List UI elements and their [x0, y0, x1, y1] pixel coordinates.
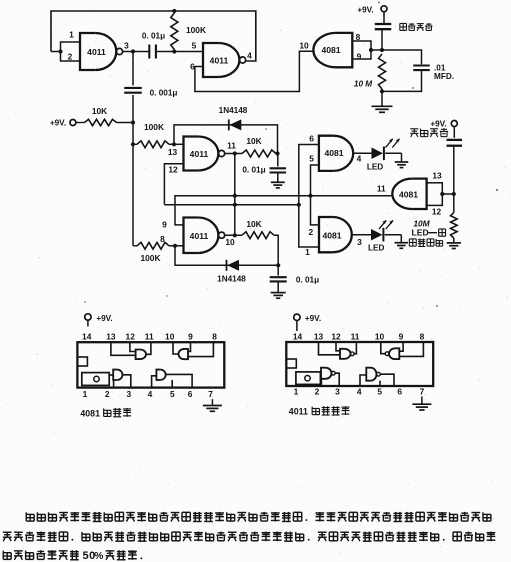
svg-text:4011: 4011	[87, 47, 106, 57]
svg-text:9: 9	[162, 220, 167, 230]
svg-text:11: 11	[377, 184, 386, 194]
svg-text:5: 5	[83, 550, 89, 562]
svg-text:LED: LED	[367, 162, 383, 171]
svg-text:4081: 4081	[324, 148, 343, 158]
svg-text:4011: 4011	[190, 231, 209, 241]
svg-text:LED: LED	[412, 228, 429, 238]
svg-text:10K: 10K	[246, 136, 261, 146]
svg-text:9: 9	[188, 332, 193, 342]
svg-text:10: 10	[165, 332, 175, 342]
svg-text:10: 10	[375, 331, 385, 341]
svg-text:8: 8	[160, 234, 165, 244]
svg-text:4: 4	[148, 389, 153, 399]
svg-text:13: 13	[314, 331, 324, 341]
svg-text:1: 1	[83, 389, 88, 399]
svg-text:6: 6	[188, 389, 193, 399]
svg-text:2: 2	[68, 52, 73, 62]
svg-text:1: 1	[305, 247, 310, 257]
svg-text:8: 8	[212, 332, 217, 342]
svg-text:12: 12	[331, 331, 341, 341]
svg-text:2: 2	[105, 389, 110, 399]
svg-text:5: 5	[377, 387, 382, 397]
svg-text:9: 9	[357, 51, 362, 61]
svg-text:12: 12	[432, 206, 442, 216]
svg-text:6: 6	[397, 387, 402, 397]
svg-text:13: 13	[432, 170, 442, 180]
svg-text:7: 7	[208, 389, 213, 399]
svg-text:3: 3	[124, 41, 129, 51]
svg-text:11: 11	[351, 331, 360, 341]
svg-text:+9V.: +9V.	[430, 120, 446, 129]
svg-text:1N4148: 1N4148	[219, 106, 248, 115]
svg-text:12: 12	[168, 165, 178, 175]
svg-text:MFD.: MFD.	[434, 72, 454, 81]
svg-text:+9V.: +9V.	[305, 314, 321, 323]
svg-text:2: 2	[308, 227, 313, 237]
svg-text:13: 13	[106, 332, 116, 342]
svg-text:5: 5	[309, 154, 314, 164]
svg-text:100K: 100K	[140, 253, 160, 263]
svg-text:13: 13	[168, 147, 178, 157]
svg-text:6: 6	[309, 133, 314, 143]
svg-text:4011: 4011	[289, 407, 308, 417]
svg-text:0. 01μ: 0. 01μ	[242, 166, 265, 175]
svg-text:3: 3	[357, 237, 362, 247]
svg-text:+9V.: +9V.	[50, 118, 66, 127]
svg-text:5: 5	[192, 41, 197, 51]
svg-text:10K: 10K	[92, 106, 107, 116]
svg-text:8: 8	[420, 331, 425, 341]
svg-text:10: 10	[299, 41, 309, 51]
svg-text:11: 11	[145, 332, 154, 342]
svg-text:4081: 4081	[321, 45, 340, 55]
svg-text:3: 3	[335, 387, 340, 397]
svg-text:4081: 4081	[399, 189, 418, 199]
svg-text:11: 11	[227, 140, 236, 150]
svg-text:1: 1	[69, 29, 74, 39]
svg-text:4011: 4011	[210, 55, 229, 65]
svg-text:2: 2	[315, 387, 320, 397]
svg-text:4011: 4011	[190, 149, 209, 159]
svg-text:4: 4	[357, 153, 362, 163]
svg-text:1: 1	[294, 387, 299, 397]
svg-text:+9V.: +9V.	[357, 5, 373, 14]
svg-text:10: 10	[225, 237, 235, 247]
svg-text:12: 12	[126, 332, 136, 342]
svg-text:+9V.: +9V.	[96, 314, 112, 323]
svg-text:5: 5	[170, 389, 175, 399]
svg-text:14: 14	[293, 331, 303, 341]
svg-text:100K: 100K	[144, 122, 164, 132]
svg-text:0. 01μ: 0. 01μ	[296, 276, 319, 285]
svg-text:7: 7	[420, 387, 425, 397]
svg-text:4081: 4081	[80, 408, 100, 418]
svg-text:4081: 4081	[322, 231, 341, 241]
svg-text:10 M: 10 M	[354, 80, 372, 89]
svg-text:%: %	[94, 551, 103, 562]
svg-text:4: 4	[247, 50, 252, 60]
svg-text:4: 4	[357, 387, 362, 397]
svg-text:9: 9	[399, 331, 404, 341]
svg-text:1N4148: 1N4148	[217, 275, 246, 284]
svg-text:14: 14	[82, 332, 92, 342]
svg-text:100K: 100K	[186, 25, 206, 35]
svg-text:10K: 10K	[246, 219, 261, 229]
svg-text:3: 3	[126, 389, 131, 399]
svg-text:0. 01μ: 0. 01μ	[142, 32, 165, 41]
svg-text:0. 001μ: 0. 001μ	[150, 88, 178, 97]
svg-text:LED: LED	[368, 244, 384, 253]
